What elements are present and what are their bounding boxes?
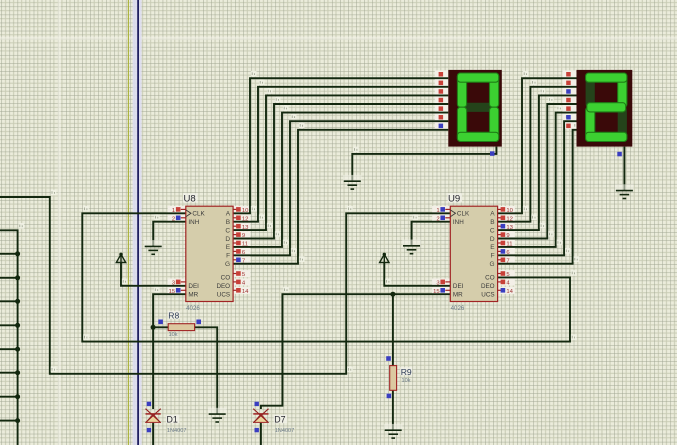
svg-text:E: E: [226, 244, 231, 251]
node left bus junction 7: [15, 394, 20, 399]
svg-text:15: 15: [433, 289, 440, 295]
grid highlight row: [0, 37, 677, 40]
7-segment display DS1: [448, 70, 502, 147]
resistor R8 10k: [158, 320, 201, 331]
svg-text:1: 1: [172, 208, 175, 214]
svg-text:CLK: CLK: [192, 211, 205, 218]
wire left bus stub 3: [0, 300, 18, 302]
wire U8 pin B to DS1 segment b: [233, 87, 448, 222]
wire R9 to MR junction: [392, 294, 394, 365]
svg-text:14: 14: [242, 289, 249, 295]
wire U9 pin B to DS2 segment b: [498, 87, 577, 222]
U9 right pin numbers and state boxes: [497, 207, 514, 295]
svg-text:10k: 10k: [169, 332, 178, 338]
D7 terminal handles: [255, 402, 259, 433]
pin label background bands: [168, 70, 577, 294]
node left bus junction 8: [15, 418, 20, 423]
svg-text:D1: D1: [167, 415, 178, 425]
IC U8 4026 counter: [186, 206, 233, 301]
wire left bus stub 4: [0, 324, 18, 326]
svg-text:F: F: [491, 253, 495, 260]
node left bus junction 6: [15, 370, 20, 375]
ground at R9: [384, 424, 403, 438]
wire U9 INH to ground: [412, 222, 451, 246]
wire U9 pin C to DS2 segment c: [498, 95, 577, 230]
svg-text:B: B: [490, 219, 494, 226]
DS1 common pin state box: [490, 151, 495, 156]
wire U9 MR to D7: [261, 294, 450, 409]
ground at U8 INH: [144, 240, 163, 254]
svg-text:11: 11: [242, 242, 248, 248]
label D7: [274, 415, 288, 425]
wire U8 INH to ground: [153, 222, 186, 247]
wire left bus stub 2: [0, 277, 18, 279]
label D7 value 1N4007: [275, 428, 295, 434]
wire U8 DEI to power arrow: [121, 263, 186, 286]
wire U8 pin G to DS1 segment g: [233, 130, 448, 264]
node left bus junction 5: [15, 347, 20, 352]
svg-text:UCS: UCS: [217, 292, 230, 299]
wire U8 pin D to DS1 segment d: [233, 104, 448, 239]
svg-text:D7: D7: [274, 415, 285, 425]
ground at R8: [208, 408, 227, 422]
svg-text:12: 12: [506, 216, 513, 222]
wire R8 left lead: [153, 326, 168, 328]
svg-text:14: 14: [506, 289, 513, 295]
wire U9 pin G to DS2 segment g: [498, 130, 577, 264]
svg-text:R8: R8: [168, 311, 179, 321]
svg-text:CO: CO: [485, 275, 495, 282]
wire U9 pin E to DS2 segment e: [498, 113, 577, 247]
svg-text:D: D: [225, 236, 230, 243]
svg-text:10: 10: [242, 208, 249, 214]
svg-text:DEI: DEI: [188, 283, 199, 290]
svg-text:2: 2: [172, 216, 175, 222]
wire R9 to ground: [392, 390, 394, 430]
svg-text:A: A: [226, 211, 231, 218]
label R8: [168, 311, 180, 321]
label D1 value 1N4007: [167, 428, 187, 434]
power terminal arrow at U8 DEI: [116, 253, 125, 263]
7-segment display DS2: [577, 70, 633, 147]
svg-text:U8: U8: [184, 193, 196, 204]
wire corner marks: [19, 71, 580, 372]
svg-text:DEO: DEO: [216, 283, 230, 290]
DS2 common pin state box: [617, 152, 622, 157]
svg-text:CO: CO: [221, 275, 231, 282]
wire D1 bottom lead: [152, 423, 154, 445]
label U8: [183, 193, 198, 204]
svg-text:7: 7: [242, 258, 245, 264]
node R8/D1/U8-MR junction: [151, 325, 156, 330]
node left bus junction 4: [15, 323, 20, 328]
wire U8 pin E to DS1 segment e: [233, 113, 448, 247]
svg-text:1: 1: [436, 208, 439, 214]
label R8 value 10k: [169, 332, 178, 338]
svg-text:CLK: CLK: [457, 211, 470, 218]
wire DS1 common cathode to ground: [352, 147, 496, 182]
svg-text:C: C: [490, 227, 495, 234]
U8 right pin numbers and state boxes: [233, 207, 250, 295]
node left bus junction 3: [15, 299, 20, 304]
svg-text:10k: 10k: [402, 378, 411, 384]
svg-text:10: 10: [506, 208, 513, 214]
power terminal arrow at U9 DEI: [380, 253, 389, 263]
resistor R9 10k: [386, 356, 396, 398]
ground for DS1 common: [343, 175, 362, 189]
svg-text:INH: INH: [188, 219, 199, 226]
node R9/D7/U9-MR junction: [390, 292, 395, 297]
svg-text:1N4007: 1N4007: [167, 428, 187, 434]
svg-text:4026: 4026: [451, 305, 465, 312]
svg-text:15: 15: [169, 289, 176, 295]
wire U8 MR to R8 junction: [153, 294, 186, 327]
svg-text:R9: R9: [401, 367, 412, 377]
wire U8 pin C to DS1 segment c: [233, 95, 448, 230]
svg-text:A: A: [490, 211, 495, 218]
grid highlight column: [58, 0, 61, 445]
wire left bus stub 8: [0, 420, 18, 422]
svg-text:B: B: [226, 219, 230, 226]
wire R8 right lead to ground: [195, 327, 218, 414]
wire left bus stub 6: [0, 372, 18, 374]
DS2 segment pin state boxes: [566, 72, 571, 128]
wire U9 pin A to DS2 segment a: [498, 78, 577, 213]
svg-text:9: 9: [242, 233, 245, 239]
U8 left pin numbers and state boxes: [169, 207, 187, 295]
node left bus junction 1: [15, 251, 20, 256]
ground at U9 INH: [402, 240, 421, 254]
wire U8 pin F to DS1 segment f: [233, 121, 448, 255]
wire D1 to R8 junction: [152, 327, 154, 409]
svg-text:C: C: [225, 227, 230, 234]
wire D7 bottom lead: [260, 423, 262, 445]
sheet border lavender band: [133, 0, 142, 445]
wire left bus stub 1: [0, 253, 18, 255]
svg-text:9: 9: [506, 233, 509, 239]
diode D7 1N4007: [253, 409, 268, 423]
wire U9 pin D to DS2 segment d: [498, 104, 577, 239]
svg-text:INH: INH: [453, 219, 464, 226]
label R9: [400, 367, 412, 377]
label R9 value 10k: [402, 378, 411, 384]
svg-text:DEI: DEI: [453, 283, 464, 290]
wire U9 pin F to DS2 segment f: [498, 121, 577, 255]
svg-text:13: 13: [506, 225, 513, 231]
svg-text:MR: MR: [188, 292, 198, 299]
svg-text:7: 7: [506, 258, 509, 264]
label D1: [166, 415, 180, 425]
wire DS2 common cathode to ground: [623, 147, 625, 191]
wire U9 DEI to power arrow: [384, 263, 450, 286]
svg-text:DEO: DEO: [481, 283, 495, 290]
U9 left pin numbers and state boxes: [433, 207, 451, 295]
sheet margin olive line: [127, 0, 129, 445]
IC U9 4026 counter: [450, 206, 497, 301]
diode D1 1N4007: [146, 409, 161, 423]
wire left bus trunk: [0, 230, 18, 445]
svg-text:1N4007: 1N4007: [275, 428, 295, 434]
DS1 segment pin state boxes: [439, 72, 444, 128]
svg-text:E: E: [490, 244, 495, 251]
svg-text:13: 13: [242, 225, 249, 231]
label 4026: [451, 305, 465, 312]
wire left bus stub 7: [0, 396, 18, 398]
node left bus junction 2: [15, 275, 20, 280]
wire U9 carry-out to U8 CLK: [82, 213, 570, 341]
svg-text:U9: U9: [448, 193, 460, 204]
svg-text:D: D: [490, 236, 495, 243]
label 4026: [186, 305, 200, 312]
svg-text:2: 2: [436, 216, 439, 222]
svg-text:G: G: [225, 261, 230, 268]
svg-text:12: 12: [242, 216, 249, 222]
wire U8 pin A to DS1 segment a: [233, 78, 448, 213]
svg-text:MR: MR: [453, 292, 463, 299]
wire external clock to U9 CLK: [0, 197, 450, 374]
wire left bus stub 5: [0, 348, 18, 350]
label U9: [448, 193, 463, 204]
svg-text:G: G: [490, 261, 495, 268]
ground for DS2 common: [615, 184, 634, 198]
D1 terminal handles: [147, 402, 151, 433]
svg-text:UCS: UCS: [481, 292, 494, 299]
svg-text:F: F: [226, 253, 230, 260]
svg-text:4026: 4026: [186, 305, 200, 312]
sheet border navy line: [137, 0, 139, 445]
svg-text:11: 11: [506, 242, 512, 248]
